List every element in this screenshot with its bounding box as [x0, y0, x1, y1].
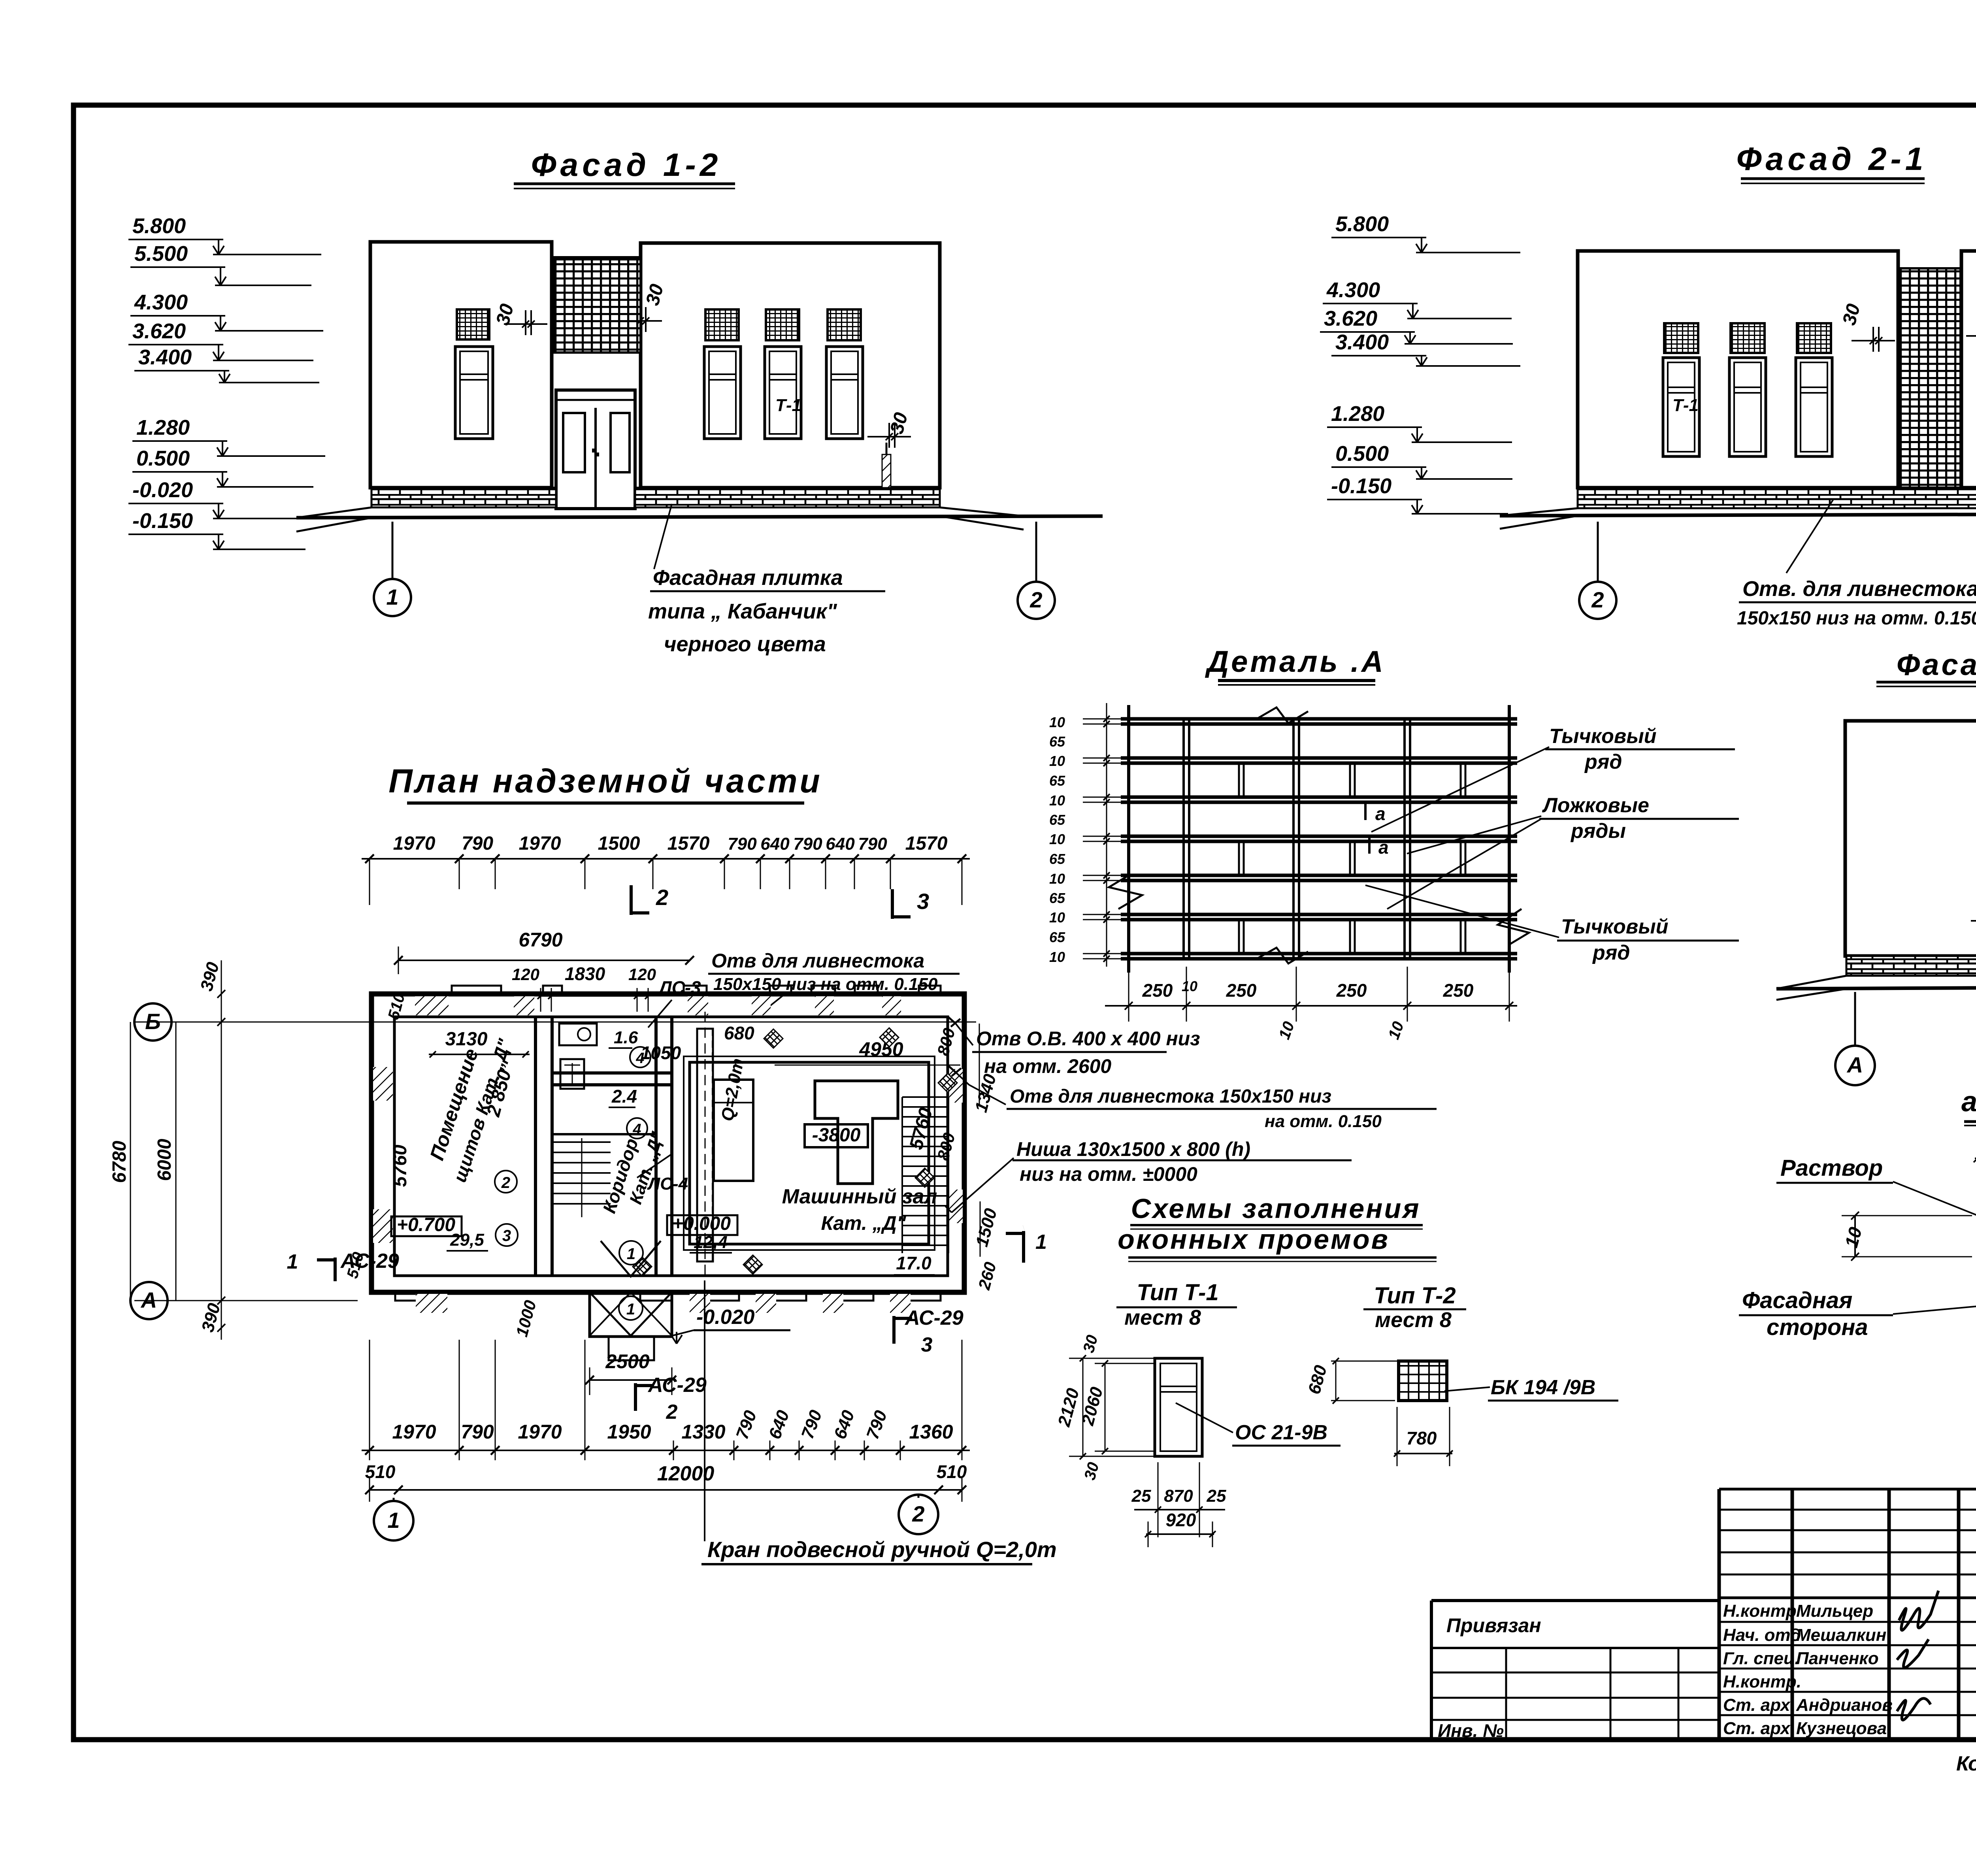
svg-text:-3800: -3800 [812, 1125, 861, 1146]
svg-text:780: 780 [1407, 1428, 1437, 1448]
svg-text:БК 194 /9В: БК 194 /9В [1491, 1376, 1595, 1399]
svg-text:Ст. арх.: Ст. арх. [1723, 1695, 1795, 1715]
svg-text:65: 65 [1049, 890, 1065, 906]
svg-text:АС-29: АС-29 [904, 1307, 963, 1329]
svg-text:65: 65 [1049, 812, 1065, 828]
svg-text:АС-29: АС-29 [647, 1374, 707, 1397]
svg-text:10: 10 [1049, 909, 1065, 926]
svg-text:Мильцер: Мильцер [1796, 1601, 1873, 1621]
svg-text:680: 680 [724, 1023, 754, 1043]
svg-text:2: 2 [1029, 587, 1042, 612]
svg-text:Мешалкин: Мешалкин [1796, 1625, 1886, 1645]
svg-text:1: 1 [387, 1508, 400, 1533]
svg-text:3.400: 3.400 [138, 345, 192, 369]
svg-text:Гл. спец.: Гл. спец. [1723, 1649, 1800, 1668]
svg-text:150х150 низ на отм. 0.150: 150х150 низ на отм. 0.150 [1737, 608, 1976, 629]
svg-text:1: 1 [626, 1301, 635, 1318]
svg-text:низ на отм. ±0000: низ на отм. ±0000 [1020, 1163, 1197, 1185]
svg-text:Фасад А-Б: Фасад А-Б [1897, 648, 1976, 682]
svg-text:4.300: 4.300 [1326, 278, 1380, 302]
svg-text:Раствор: Раствор [1780, 1155, 1883, 1181]
svg-text:оконных проемов: оконных проемов [1118, 1224, 1390, 1255]
svg-text:10: 10 [1049, 871, 1065, 887]
svg-text:Привязан: Привязан [1446, 1614, 1541, 1637]
svg-text:Тип Т-1: Тип Т-1 [1137, 1280, 1218, 1305]
svg-text:1830: 1830 [565, 963, 605, 984]
svg-text:+0.000: +0.000 [672, 1213, 731, 1234]
svg-text:Т-1: Т-1 [775, 396, 801, 415]
svg-text:150х150 низ на отм. 0.150: 150х150 низ на отм. 0.150 [713, 975, 938, 994]
svg-text:0.500: 0.500 [1335, 442, 1389, 466]
svg-text:10: 10 [1049, 753, 1065, 769]
svg-text:2500: 2500 [605, 1350, 649, 1373]
svg-text:65: 65 [1049, 851, 1065, 867]
svg-text:250: 250 [1443, 980, 1474, 1001]
svg-text:1.280: 1.280 [136, 416, 190, 439]
svg-text:790: 790 [858, 834, 887, 854]
svg-text:ряд: ряд [1592, 941, 1630, 964]
svg-text:10: 10 [1049, 949, 1065, 965]
svg-text:790: 790 [728, 834, 757, 854]
svg-text:5.500: 5.500 [134, 242, 188, 266]
svg-text:120: 120 [512, 965, 539, 984]
svg-text:25: 25 [1207, 1486, 1226, 1506]
svg-text:1570: 1570 [905, 833, 948, 854]
svg-text:Схемы заполнения: Схемы заполнения [1131, 1193, 1421, 1224]
svg-text:Копировал.: Копировал. [1956, 1752, 1976, 1775]
svg-text:790: 790 [461, 1421, 494, 1443]
svg-text:2: 2 [501, 1174, 510, 1192]
svg-text:6780: 6780 [109, 1141, 130, 1183]
svg-text:Фасадная плитка: Фасадная плитка [653, 566, 843, 590]
svg-text:790: 790 [793, 834, 822, 854]
svg-text:1: 1 [1035, 1231, 1047, 1254]
svg-text:10: 10 [1182, 978, 1197, 994]
svg-text:3.400: 3.400 [1335, 330, 1389, 354]
svg-text:5760: 5760 [390, 1144, 411, 1187]
svg-text:Деталь .А: Деталь .А [1205, 645, 1385, 679]
svg-text:12,4: 12,4 [694, 1233, 728, 1252]
svg-text:3: 3 [921, 1333, 933, 1356]
svg-text:а: а [1378, 837, 1389, 858]
svg-text:Б: Б [145, 1009, 161, 1034]
svg-text:10: 10 [1049, 792, 1065, 809]
svg-text:Фасад 1-2: Фасад 1-2 [531, 147, 722, 183]
svg-text:а: а [1375, 803, 1386, 824]
svg-text:Ложковые: Ложковые [1542, 794, 1649, 817]
svg-text:АС-29: АС-29 [340, 1250, 399, 1273]
svg-text:3.620: 3.620 [132, 319, 186, 343]
svg-text:Тычковый: Тычковый [1561, 915, 1669, 938]
svg-text:План надземной части: План надземной части [388, 762, 822, 799]
svg-text:29,5: 29,5 [450, 1230, 484, 1250]
svg-text:2: 2 [666, 1401, 678, 1423]
svg-text:4: 4 [632, 1121, 641, 1138]
svg-text:на отм. 2600: на отм. 2600 [984, 1055, 1111, 1077]
svg-text:Кран подвесной ручной Q=2,0т: Кран подвесной ручной Q=2,0т [707, 1537, 1057, 1562]
svg-text:Фасад 2-1: Фасад 2-1 [1737, 141, 1927, 177]
svg-text:65: 65 [1049, 929, 1065, 945]
svg-text:0.500: 0.500 [136, 447, 190, 470]
svg-text:6790: 6790 [519, 929, 562, 951]
svg-text:Андрианов: Андрианов [1796, 1695, 1893, 1715]
svg-text:Тип Т-2: Тип Т-2 [1374, 1283, 1456, 1308]
svg-text:870: 870 [1164, 1486, 1193, 1506]
svg-text:17.0: 17.0 [896, 1253, 931, 1273]
svg-text:Кузнецова: Кузнецова [1796, 1719, 1887, 1738]
svg-text:Ст. арх.: Ст. арх. [1723, 1719, 1795, 1738]
svg-text:1970: 1970 [518, 1421, 562, 1443]
svg-text:1050: 1050 [641, 1043, 681, 1063]
svg-text:1: 1 [627, 1245, 635, 1263]
svg-text:5.800: 5.800 [1335, 212, 1389, 236]
svg-text:2.4: 2.4 [611, 1086, 637, 1107]
svg-text:Отв. для ливнестока: Отв. для ливнестока [1742, 577, 1976, 601]
svg-text:10: 10 [1049, 714, 1065, 730]
svg-text:мест 8: мест 8 [1124, 1306, 1201, 1329]
svg-text:4.300: 4.300 [134, 290, 188, 314]
svg-text:Отв для ливнестока: Отв для ливнестока [711, 950, 924, 972]
svg-text:2: 2 [656, 885, 668, 910]
svg-text:10: 10 [1049, 831, 1065, 847]
svg-text:3: 3 [917, 889, 929, 914]
svg-text:+0.700: +0.700 [397, 1214, 455, 1235]
svg-text:2: 2 [912, 1501, 924, 1526]
svg-text:640: 640 [826, 834, 855, 854]
svg-text:2: 2 [1591, 587, 1604, 612]
svg-text:Н.контр.: Н.контр. [1723, 1672, 1801, 1691]
svg-text:120: 120 [628, 965, 656, 984]
svg-text:1.6: 1.6 [614, 1028, 638, 1047]
svg-text:1970: 1970 [393, 833, 436, 854]
svg-text:1950: 1950 [607, 1421, 651, 1443]
svg-text:Нач. отд: Нач. отд [1723, 1625, 1801, 1645]
svg-text:1500: 1500 [598, 833, 640, 854]
svg-text:250: 250 [1336, 980, 1367, 1001]
svg-text:-0.150: -0.150 [1331, 474, 1391, 498]
svg-text:1970: 1970 [392, 1421, 436, 1443]
svg-text:Отв О.В. 400 х 400 низ: Отв О.В. 400 х 400 низ [976, 1028, 1200, 1050]
svg-text:-0.150: -0.150 [132, 509, 193, 533]
svg-text:3130: 3130 [445, 1029, 488, 1050]
svg-text:1360: 1360 [909, 1421, 953, 1443]
svg-text:790: 790 [462, 833, 493, 854]
svg-text:1970: 1970 [519, 833, 561, 854]
svg-text:Панченко: Панченко [1796, 1649, 1879, 1668]
svg-text:на отм. 0.150: на отм. 0.150 [1265, 1112, 1382, 1131]
svg-text:1330: 1330 [681, 1421, 725, 1443]
svg-text:1.280: 1.280 [1331, 402, 1384, 426]
svg-text:Фасадная: Фасадная [1742, 1288, 1852, 1313]
svg-text:1570: 1570 [667, 833, 710, 854]
svg-text:Т-1: Т-1 [1672, 396, 1699, 415]
svg-text:Ниша 130х1500 х 800 (h): Ниша 130х1500 х 800 (h) [1016, 1138, 1250, 1160]
svg-text:сторона: сторона [1767, 1314, 1868, 1340]
svg-text:1: 1 [287, 1250, 298, 1273]
svg-text:мест 8: мест 8 [1375, 1308, 1452, 1332]
svg-text:типа „ Кабанчик": типа „ Кабанчик" [648, 600, 837, 623]
svg-text:ОС 21-9В: ОС 21-9В [1235, 1421, 1327, 1444]
svg-text:65: 65 [1049, 773, 1065, 789]
svg-text:250: 250 [1142, 980, 1173, 1001]
svg-text:а - а: а - а [1961, 1086, 1976, 1118]
svg-text:1: 1 [386, 584, 398, 609]
svg-text:5.800: 5.800 [132, 214, 186, 238]
svg-text:Кат. „Д": Кат. „Д" [821, 1212, 907, 1234]
svg-text:черного цвета: черного цвета [664, 632, 826, 656]
svg-text:ряд: ряд [1584, 750, 1622, 773]
svg-text:3: 3 [502, 1227, 511, 1244]
svg-text:Инв. №: Инв. № [1438, 1720, 1504, 1741]
svg-text:Отв для ливнестока 150х150 ни: Отв для ливнестока 150х150 низ [1010, 1086, 1331, 1107]
svg-text:25: 25 [1131, 1486, 1151, 1506]
svg-text:640: 640 [760, 834, 790, 854]
svg-text:А: А [1846, 1052, 1863, 1077]
svg-text:Тычковый: Тычковый [1549, 725, 1657, 748]
svg-text:920: 920 [1166, 1510, 1196, 1530]
svg-text:Н.контр: Н.контр [1723, 1601, 1797, 1621]
svg-text:4950: 4950 [859, 1038, 903, 1060]
svg-text:65: 65 [1049, 733, 1065, 750]
svg-text:А: А [140, 1288, 157, 1312]
svg-text:-0.020: -0.020 [132, 478, 193, 502]
svg-text:250: 250 [1226, 980, 1257, 1001]
svg-text:ряды: ряды [1570, 820, 1626, 843]
svg-text:12000: 12000 [657, 1462, 715, 1485]
svg-text:3.620: 3.620 [1324, 307, 1377, 330]
svg-text:6000: 6000 [154, 1139, 175, 1181]
